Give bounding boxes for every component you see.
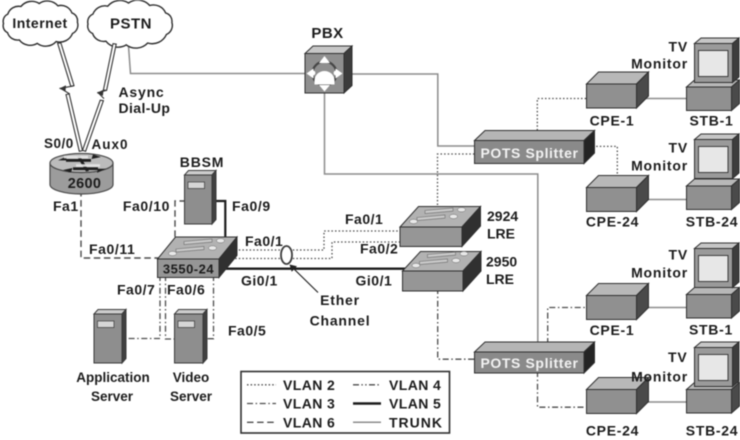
svg-text:PBX: PBX: [311, 25, 343, 42]
svg-text:Server: Server: [170, 389, 213, 404]
EtherChannel arrow: [295, 270, 319, 293]
legend VLAN 2 dotted: [247, 384, 276, 386]
STB-24 group2: [687, 179, 740, 210]
svg-text:VLAN 3: VLAN 3: [283, 396, 335, 412]
switch 3550-24: [158, 237, 238, 278]
legend VLAN 6 dashed: [247, 421, 276, 423]
svg-text:Aux0: Aux0: [92, 137, 129, 152]
svg-text:Fa0/1: Fa0/1: [245, 233, 283, 249]
Video Server: [175, 310, 208, 364]
svg-text:VLAN 2: VLAN 2: [283, 377, 335, 393]
wire 3550 Fa0/6 to Video Server dash-dot: [166, 275, 177, 339]
EtherChannel ellipse: [281, 246, 292, 264]
cloud PSTN: [88, 0, 173, 48]
wire 3550 Fa0/5 to Video Server dash-dot: [204, 275, 214, 339]
legend TRUNK: [353, 421, 381, 423]
svg-text:Ether: Ether: [320, 292, 360, 308]
svg-text:TV: TV: [669, 247, 689, 263]
svg-text:VLAN 4: VLAN 4: [389, 377, 441, 393]
svg-text:LRE: LRE: [486, 271, 514, 287]
STB-1 group3: [687, 288, 740, 319]
CPE-24 group2: [587, 176, 649, 212]
svg-text:3550-24: 3550-24: [163, 262, 214, 277]
svg-text:Monitor: Monitor: [631, 265, 688, 281]
svg-text:Fa0/6: Fa0/6: [167, 282, 205, 298]
wire PBX bottom trunk to POTS Splitter 2: [325, 90, 538, 346]
svg-text:TV: TV: [669, 140, 689, 156]
svg-text:TV: TV: [668, 349, 688, 365]
CPE-24 group4: [587, 378, 649, 414]
wire 3550 Fa0/1 to 2924 Fa0/1 dotted: [228, 231, 404, 250]
svg-text:CPE-24: CPE-24: [586, 214, 639, 230]
svg-text:Fa1: Fa1: [53, 198, 79, 214]
bolt PSTN to router Aux0: [83, 44, 117, 152]
svg-text:S0/0: S0/0: [44, 136, 74, 151]
BBSM server: [185, 171, 217, 225]
STB-24 group4: [687, 383, 740, 414]
CPE-1 group1: [587, 72, 649, 108]
legend VLAN 5 thick: [353, 402, 381, 405]
svg-text:POTS Splitter: POTS Splitter: [480, 145, 578, 161]
wire POTS Splitter 1 right to CPE-24 group2 dotted: [589, 146, 617, 182]
svg-text:2600: 2600: [68, 176, 101, 192]
wire PBX right to POTS Splitter 1: [350, 74, 480, 146]
svg-text:CPE-1: CPE-1: [590, 113, 635, 129]
svg-text:Dial-Up: Dial-Up: [119, 100, 171, 116]
cloud Internet: [3, 1, 78, 46]
svg-text:Fa0/11: Fa0/11: [89, 241, 135, 257]
STB-1 group1: [687, 80, 740, 111]
wire CPE-1 to STB-1 group1: [640, 98, 692, 100]
router 2600: [50, 154, 113, 195]
svg-text:Monitor: Monitor: [631, 158, 688, 174]
wire 3550 Fa0/7 to Application Server dash-dot: [123, 275, 160, 339]
wire POTS Splitter 1 top to CPE-1 group1 dotted: [537, 99, 590, 135]
svg-text:LRE: LRE: [487, 226, 515, 242]
svg-text:Fa0/7: Fa0/7: [117, 282, 155, 298]
svg-text:TV: TV: [669, 39, 689, 55]
svg-text:Fa0/1: Fa0/1: [345, 211, 383, 227]
bolt Internet to router S0/0: [58, 43, 83, 151]
svg-text:Video: Video: [173, 370, 210, 385]
legend VLAN 3 dash-dot: [247, 403, 276, 405]
switch 2924 LRE: [400, 207, 481, 247]
svg-text:CPE-1: CPE-1: [590, 322, 635, 338]
wire Gi0/1 thick VLAN5: [222, 268, 406, 270]
CPE-1 group3: [587, 284, 649, 320]
legend VLAN 4 dash-dot-dot: [353, 384, 381, 386]
wire CPE-24 to STB-24 group2: [640, 199, 692, 201]
wire POTS Splitter 2 top to CPE-1 group3 dash-dot: [548, 308, 590, 345]
wire BBSM Fa0/9 solid: [210, 201, 225, 240]
POTS Splitter 2: [475, 342, 595, 373]
svg-text:Fa0/9: Fa0/9: [232, 198, 271, 214]
svg-text:BBSM: BBSM: [180, 154, 224, 170]
svg-text:STB-1: STB-1: [689, 322, 733, 338]
PBX box: [305, 46, 352, 93]
svg-text:Gi0/1: Gi0/1: [241, 273, 278, 289]
svg-text:Internet: Internet: [12, 15, 67, 31]
svg-text:Fa0/5: Fa0/5: [228, 323, 266, 339]
Application Server: [94, 310, 126, 364]
svg-text:2924: 2924: [487, 208, 518, 224]
wire PSTN to PBX trunk: [129, 46, 311, 74]
svg-text:Gi0/1: Gi0/1: [356, 273, 393, 289]
svg-text:CPE-24: CPE-24: [586, 423, 639, 439]
svg-text:PSTN: PSTN: [110, 16, 152, 33]
svg-text:Fa0/2: Fa0/2: [360, 241, 398, 257]
svg-text:Fa0/10: Fa0/10: [123, 198, 170, 214]
svg-text:STB-24: STB-24: [686, 423, 738, 439]
PBX phone icon: [307, 56, 343, 92]
wire router Fa1 to 3550 Fa0/11 dashed: [81, 190, 160, 258]
svg-text:Channel: Channel: [310, 313, 371, 329]
svg-text:STB-24: STB-24: [686, 214, 738, 230]
wire CPE-24 to STB-24 group4: [640, 401, 692, 403]
svg-text:STB-1: STB-1: [690, 113, 734, 129]
svg-text:Monitor: Monitor: [631, 56, 688, 72]
wire 2950 to POTS Splitter 2 dash-dot: [438, 288, 478, 359]
wire POTS Splitter 1 left to 2924 dotted: [438, 154, 479, 210]
svg-text:TRUNK: TRUNK: [389, 415, 443, 431]
svg-text:VLAN 5: VLAN 5: [389, 396, 441, 412]
wire CPE-1 to STB-1 group3: [640, 307, 692, 309]
legend box: [241, 372, 450, 434]
svg-text:Async: Async: [119, 84, 165, 100]
POTS Splitter 1: [475, 131, 595, 164]
svg-text:VLAN 6: VLAN 6: [283, 415, 335, 431]
wire POTS Splitter 2 bottom to CPE-24 group4 dash-dot: [538, 371, 589, 407]
wire BBSM Fa0/10 dashed: [175, 201, 186, 240]
switch 2950 LRE: [403, 252, 482, 292]
svg-text:Monitor: Monitor: [631, 369, 688, 385]
svg-text:POTS Splitter: POTS Splitter: [480, 355, 578, 371]
svg-text:Server: Server: [91, 389, 134, 404]
wire 3550 Fa0/2 to 2924 Fa0/2 dotted: [228, 242, 404, 259]
svg-text:Application: Application: [76, 370, 150, 385]
svg-text:2950: 2950: [486, 254, 517, 270]
